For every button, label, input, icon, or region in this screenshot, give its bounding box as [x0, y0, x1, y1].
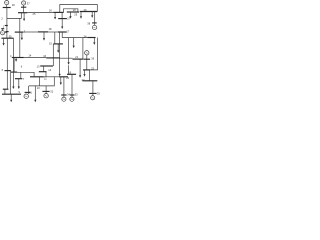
wire line 17 to rail — [61, 32, 63, 38]
bus 12 — [39, 71, 47, 73]
wire line 18-17 — [48, 31, 58, 33]
load arrow at 25 — [23, 13, 25, 21]
wire line 4-14 — [24, 57, 47, 59]
load arrow at 26 — [54, 12, 56, 19]
bus 25 — [18, 12, 27, 14]
wire line 22-23 — [89, 70, 91, 81]
wire drop to bus21 — [82, 38, 84, 60]
load arrow at 6 — [12, 72, 14, 89]
bus 24 — [87, 37, 95, 39]
bus 4 — [12, 57, 24, 59]
wire line 8-9 — [4, 89, 6, 94]
load arrow at 23 — [83, 70, 85, 77]
bus 8 — [3, 88, 9, 90]
wire line 12-11 — [45, 72, 47, 77]
bus 5 — [5, 70, 11, 72]
bus 15 — [53, 43, 63, 45]
load arrow at 9 — [10, 94, 12, 102]
wire line 23-24 — [90, 38, 97, 70]
generator G36 — [83, 51, 90, 70]
wire line 21-22 with arrow — [79, 59, 81, 78]
load arrow at 39 — [3, 38, 5, 45]
wire line 15-16-13 — [52, 44, 54, 66]
generator G33 — [70, 74, 75, 101]
wire line 17-15 — [54, 32, 56, 44]
wire line 5-9 — [9, 71, 11, 95]
load arrow at 29 right — [91, 12, 93, 18]
wire line 11-20 row — [44, 76, 59, 78]
generator G30 — [3, 1, 11, 8]
wire 39 to 5-8 column — [6, 38, 8, 89]
bus 13 — [40, 65, 53, 67]
bus 27 — [58, 18, 67, 20]
wire line 3-18 — [23, 31, 38, 33]
wire line 26-27 — [61, 12, 63, 18]
bus 18 — [38, 31, 48, 33]
wire line 26-28 mid rail — [64, 9, 78, 13]
wire line 4-6 — [13, 58, 15, 73]
wire line 17-16-20 with arrow — [59, 32, 61, 76]
generator G31 — [24, 86, 31, 99]
load arrow at 4 — [15, 58, 17, 62]
wire line 11-10 — [39, 77, 41, 86]
wire drop to bus19 — [68, 38, 70, 63]
wire bus30 to bus2 — [6, 8, 8, 19]
bus 6 — [11, 71, 17, 73]
wire line 2-3 3-4 — [19, 18, 21, 57]
bus 23 — [83, 69, 90, 71]
bus 21 — [73, 58, 84, 60]
load arrow at 27 — [61, 19, 63, 29]
generator G32 — [42, 86, 49, 98]
generator G35 — [89, 81, 96, 100]
wire line 2-25 — [7, 13, 21, 19]
wire line 6-11 — [17, 72, 34, 77]
wire line 16-21 — [60, 57, 73, 59]
bus 7 — [15, 78, 22, 80]
wire line 7 feeder — [20, 72, 22, 78]
bus 39 — [1, 37, 13, 39]
wire 39 to 6 column — [13, 38, 15, 72]
load arrow at 29 — [80, 12, 82, 19]
bus 20 — [59, 76, 68, 78]
bus 11 — [30, 76, 44, 78]
bus 26 — [53, 11, 63, 13]
load arrow at 20 — [60, 77, 62, 85]
bus 3 — [15, 31, 24, 33]
generator G38 — [92, 12, 97, 30]
bus 16 — [46, 57, 60, 59]
wire rail 16-24 — [62, 37, 87, 39]
bus 1 — [5, 25, 8, 27]
load arrow at 18 — [43, 32, 45, 41]
svg-text:35: 35 — [97, 91, 100, 95]
load arrow at 24 — [93, 38, 95, 45]
load arrow at 10 — [34, 86, 36, 102]
load arrow at 3 — [21, 32, 23, 40]
wire line 26-29 top rail — [60, 5, 98, 13]
generator G37 — [21, 1, 26, 13]
load arrow at 15 — [57, 44, 59, 53]
load arrow at 7 — [18, 79, 20, 89]
bus 29 — [80, 11, 98, 13]
wire row 10 riser — [29, 77, 55, 86]
bus 19 — [67, 73, 76, 75]
load arrow on rail — [73, 38, 75, 49]
generator G39 — [1, 29, 7, 35]
bus 39 tick — [5, 31, 8, 33]
bus 17 — [58, 31, 67, 33]
bus 22 — [83, 80, 98, 82]
bus 9 — [2, 93, 21, 95]
load arrow at 28 — [69, 12, 71, 19]
wire line 25-26 — [27, 11, 53, 13]
generator G34 — [61, 77, 66, 101]
wire line 13-12 — [43, 66, 45, 72]
bus 28 — [67, 11, 79, 13]
wire line 1-2 — [6, 18, 8, 38]
